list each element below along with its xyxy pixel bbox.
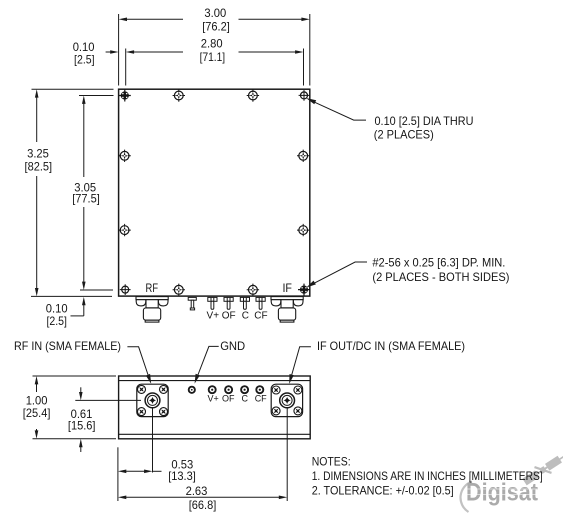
side view chassis outline <box>119 376 311 439</box>
dimension 3.25 [82.5] vertical <box>31 89 114 296</box>
svg-text:[71.1]: [71.1] <box>200 50 226 64</box>
svg-text:[77.5]: [77.5] <box>72 192 100 206</box>
left extension line (below side view) <box>117 447 119 501</box>
label GND leader <box>198 346 219 375</box>
svg-text:[2.5]: [2.5] <box>46 314 67 328</box>
feedthrough pin CF (top view) <box>256 297 265 309</box>
dimension 3.00 [76.2] horizontal <box>119 14 310 86</box>
svg-text:C: C <box>242 394 249 404</box>
screw bottom mid-right <box>247 284 259 296</box>
IF centerline (below side view) <box>286 408 288 501</box>
pin OF (side view) <box>225 386 232 393</box>
label IF OUT/DC IN leader <box>292 347 311 376</box>
watermark satellite <box>520 439 563 489</box>
screw right upper <box>297 150 309 162</box>
feedthrough pin V+ (top view) <box>208 297 217 309</box>
svg-text:V+: V+ <box>207 310 220 321</box>
svg-text:0.10 [2.5] DIA THRU: 0.10 [2.5] DIA THRU <box>375 114 474 128</box>
GND hole (side view) <box>189 387 195 393</box>
svg-text:[13.3]: [13.3] <box>168 469 196 483</box>
svg-text:[76.2]: [76.2] <box>202 19 230 33</box>
top view enclosure outline <box>119 89 310 296</box>
svg-text:[82.5]: [82.5] <box>25 159 53 173</box>
svg-text:[15.6]: [15.6] <box>68 419 96 433</box>
svg-text:3.00: 3.00 <box>204 6 226 20</box>
feedthrough pin C (top view) <box>240 297 249 309</box>
pin V+ (side view) <box>209 386 216 393</box>
dimension 0.53 [13.3] <box>125 470 147 472</box>
GND screw profile (top view) <box>188 297 196 310</box>
leader #2-56 callout <box>306 281 316 288</box>
svg-text:IF OUT/DC IN (SMA FEMALE): IF OUT/DC IN (SMA FEMALE) <box>317 339 465 353</box>
svg-text:RF IN (SMA FEMALE): RF IN (SMA FEMALE) <box>14 339 121 353</box>
svg-text:2.80: 2.80 <box>201 36 223 50</box>
svg-text:CF: CF <box>254 310 267 321</box>
dimension 2.63 [66.8] <box>125 496 281 498</box>
svg-text:1. DIMENSIONS ARE IN INCHES [M: 1. DIMENSIONS ARE IN INCHES [MILLIMETERS… <box>312 469 543 483</box>
svg-text:NOTES:: NOTES: <box>312 455 351 469</box>
mounting hole top-left (filled) <box>119 90 131 102</box>
screw right lower <box>297 224 309 236</box>
pin C (side view) <box>241 386 248 393</box>
feedthrough pin OF (top view) <box>224 297 233 309</box>
svg-text:OF: OF <box>222 394 235 404</box>
svg-text:[25.4]: [25.4] <box>23 406 51 420</box>
dimension 0.10 [2.5] top-left <box>106 51 112 53</box>
label RF IN leader <box>127 347 148 377</box>
dimension 1.00 [25.4] vertical <box>33 376 117 439</box>
thru hole top-right <box>299 90 310 101</box>
svg-text:C: C <box>242 310 249 321</box>
IF SMA flange (side view) <box>271 384 302 416</box>
dimension 0.61 [15.6] vertical <box>75 399 141 401</box>
svg-text:RF: RF <box>146 283 159 295</box>
svg-text:OF: OF <box>222 310 236 321</box>
svg-text:(2 PLACES - BOTH SIDES): (2 PLACES - BOTH SIDES) <box>372 270 509 284</box>
RF SMA connector profile (top view bottom edge) <box>136 297 168 323</box>
dimension 2.80 [71.1] horizontal <box>126 49 304 86</box>
screw top mid-left <box>173 89 185 101</box>
leader 0.10 DIA THRU callout <box>306 98 316 104</box>
svg-text:(2 PLACES): (2 PLACES) <box>374 128 434 142</box>
svg-text:#2-56 x 0.25 [6.3] DP. MIN.: #2-56 x 0.25 [6.3] DP. MIN. <box>372 256 505 270</box>
RF SMA flange (side view) <box>137 384 168 416</box>
thru hole bottom-left <box>120 284 131 295</box>
svg-text:2.63: 2.63 <box>186 484 208 498</box>
svg-text:GND: GND <box>220 339 245 353</box>
dimension 0.10 [2.5] bottom-left <box>82 297 86 305</box>
side view bottom lip line <box>119 433 311 435</box>
mounting hole bottom-right (filled) <box>298 284 310 296</box>
dimension 3.05 [77.5] vertical <box>79 96 114 291</box>
pin CF (side view) <box>256 386 263 393</box>
svg-text:[2.5]: [2.5] <box>74 53 95 67</box>
svg-text:CF: CF <box>255 394 267 404</box>
svg-text:2. TOLERANCE: +/-0.02 [0.5]: 2. TOLERANCE: +/-0.02 [0.5] <box>312 483 454 497</box>
svg-text:[66.8]: [66.8] <box>189 498 217 512</box>
IF SMA connector profile (top view bottom edge) <box>271 297 303 323</box>
screw left upper <box>118 150 130 162</box>
screw top mid-right <box>247 89 259 101</box>
screw left lower <box>118 224 130 236</box>
screw bottom mid-left <box>173 284 185 296</box>
svg-text:V+: V+ <box>207 394 218 404</box>
RF centerline (below side view) <box>152 408 154 472</box>
svg-text:IF: IF <box>282 283 292 295</box>
side view top lip line <box>119 380 311 382</box>
watermark crescent <box>461 482 472 513</box>
